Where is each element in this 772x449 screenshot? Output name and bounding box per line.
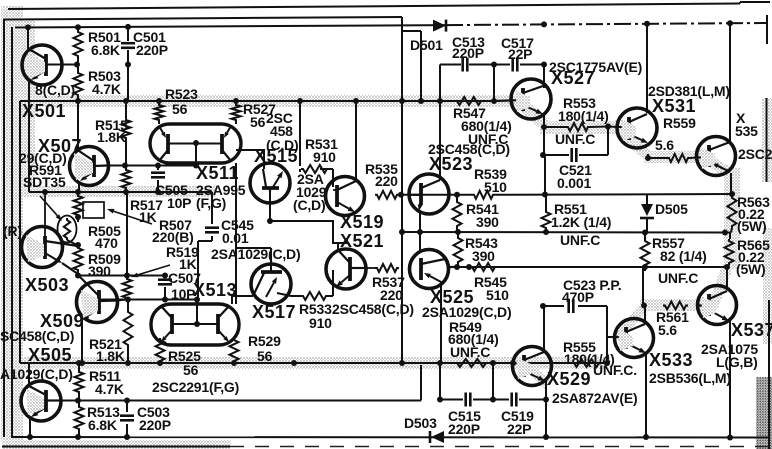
wire x421 feedback drop <box>420 365 422 401</box>
resistor R541 390 <box>453 200 462 228</box>
svg-text:R523: R523 <box>165 86 198 102</box>
svg-text:(C,D): (C,D) <box>293 197 325 213</box>
svg-text:L(G,B): L(G,B) <box>716 354 758 370</box>
svg-text:UNF.C: UNF.C <box>560 232 600 248</box>
node C501 mid <box>125 62 131 68</box>
node C505 top <box>155 163 161 169</box>
transistor X533 (2SB536) <box>615 319 654 358</box>
resistor R527 56 <box>232 103 241 122</box>
svg-text:UNF.C: UNF.C <box>555 131 595 147</box>
wire x236 long link <box>235 163 237 304</box>
node R505 bottom <box>75 214 81 220</box>
transistor X519 <box>326 177 365 216</box>
wire bottom rail <box>11 436 770 439</box>
wire X529 emitter drop <box>545 381 547 400</box>
wire y267 (R545 net) <box>448 266 727 268</box>
svg-text:X513: X513 <box>193 280 237 300</box>
capacitor C545 0.01 <box>205 228 219 233</box>
wire C507 stubs <box>164 276 166 300</box>
wire UNF.C box <box>544 127 608 156</box>
svg-text:1.8K: 1.8K <box>96 348 125 364</box>
svg-text:5.6: 5.6 <box>658 322 677 338</box>
svg-text:X525: X525 <box>430 287 474 307</box>
resistor R539 510 <box>472 191 495 199</box>
node C503 top <box>124 398 130 404</box>
wire ladder x127 R517 stubs <box>125 166 127 193</box>
node C515 left <box>437 397 443 403</box>
svg-text:910: 910 <box>313 149 336 165</box>
svg-text:22P: 22P <box>507 421 531 437</box>
dual transistor X511 (2SA995) <box>150 124 241 163</box>
wire R533 link <box>291 169 333 296</box>
svg-text:(5W): (5W) <box>736 261 766 277</box>
wire left bus outer <box>3 19 5 438</box>
node R565 bottom <box>724 264 730 270</box>
node x607 rail <box>604 360 610 366</box>
node R543 top <box>455 229 461 235</box>
wire X533 base stub <box>607 336 615 338</box>
node C507 bottom <box>162 297 168 303</box>
wire bias branch x421 <box>402 31 421 101</box>
wire X517 top stub <box>236 248 271 272</box>
svg-text:10P: 10P <box>171 286 195 302</box>
svg-text:390: 390 <box>476 214 499 230</box>
resistor R551 1.2K <box>542 210 551 230</box>
svg-text:470P: 470P <box>562 289 594 305</box>
resistor R525 56 <box>156 338 165 363</box>
svg-text:56: 56 <box>183 362 199 378</box>
node x493 rail <box>490 360 496 366</box>
wire X515 collector link <box>236 150 264 169</box>
node X513 centre <box>194 321 200 327</box>
node R545 left <box>466 264 472 270</box>
wire R509 node y275 <box>79 275 165 277</box>
wire X535 emitter drop <box>730 173 732 194</box>
wire X513 right top stub <box>232 296 253 304</box>
wire ladder x127 R515 stub <box>125 101 127 166</box>
wire bias y232 <box>402 231 731 234</box>
node R553 right <box>605 124 611 130</box>
resistor R547 680(1/4) <box>455 97 483 105</box>
transistor X525 <box>410 250 458 289</box>
node X501 collector / rail C <box>25 24 31 30</box>
wire ladder x78 top <box>77 27 79 101</box>
wire x440 cap leg <box>439 363 441 400</box>
leader arrow R519 label to resistor <box>131 265 170 277</box>
node R557 bottom <box>642 264 648 270</box>
wire left band inner edge <box>19 101 21 363</box>
node R541 top <box>454 192 460 198</box>
svg-text:X519: X519 <box>340 212 384 232</box>
wire R523 bottom stub <box>158 122 160 124</box>
wire right border lower <box>768 300 770 449</box>
resistor R531 910 <box>301 165 329 173</box>
wire ladder x128 R521 stubs <box>127 300 129 364</box>
node C521 box corner <box>540 152 546 158</box>
resistor R559 5.6 <box>667 154 690 162</box>
diode D505 <box>640 204 654 218</box>
transistor X521 <box>326 249 375 289</box>
node X511 post top <box>193 163 199 169</box>
wire X511 centre post <box>195 143 197 166</box>
wire R565 stubs <box>727 233 730 268</box>
resistor R555 180(1/4) <box>572 359 601 367</box>
resistor R561 5.6 <box>663 302 688 310</box>
svg-text:0.01: 0.01 <box>222 230 249 246</box>
wire X505 collector <box>28 363 30 386</box>
node X509 emitter rail <box>79 360 85 366</box>
transistor X535 (2SC2---) <box>697 137 736 176</box>
resistor R513 6.8K <box>75 405 84 431</box>
capacitor C505 10P <box>151 173 165 178</box>
svg-text:X521: X521 <box>340 231 384 251</box>
svg-text:4.7K: 4.7K <box>95 381 124 397</box>
wire R531 ladder <box>300 101 329 172</box>
wire X519 collector <box>355 101 357 181</box>
node C519 right <box>543 397 549 403</box>
node X531 emitter <box>645 155 651 161</box>
wire lower gray rail y363 <box>20 362 608 364</box>
diode D503 <box>430 431 444 443</box>
wire X523 collector <box>439 101 441 180</box>
wire R505 stub <box>77 192 79 194</box>
svg-text:220: 220 <box>375 173 398 189</box>
wire R507 output y192 <box>29 191 212 193</box>
resistor R529 56 <box>230 338 239 363</box>
resistor R503 4.7K <box>74 71 83 97</box>
resistor R563 0.22 (5W) <box>728 196 737 228</box>
node X535 emitter node <box>729 191 735 197</box>
node R517 bottom <box>123 189 129 195</box>
scan smudge in X529 <box>516 357 531 379</box>
wire R511 stubs <box>78 363 80 400</box>
wire C501 stubs <box>127 27 129 101</box>
capacitor C515 220P <box>466 393 471 407</box>
wire R527 bottom stub <box>235 122 237 124</box>
wire D505 stubs <box>646 194 648 233</box>
svg-text:220: 220 <box>380 287 403 303</box>
leader arrow R507 label to preset box <box>107 209 152 224</box>
wire X527 emitter node <box>543 113 545 127</box>
wire top rail A <box>8 2 770 9</box>
svg-text:220(B): 220(B) <box>152 229 194 245</box>
wire R563 stubs <box>731 194 732 233</box>
svg-text:(5W): (5W) <box>737 218 767 234</box>
svg-text:D505: D505 <box>655 201 688 217</box>
scan smudge in X527 <box>515 90 530 112</box>
resistor R591 SDT35 (thermal, oval) <box>58 216 80 247</box>
wire X505 emitter drop <box>29 417 31 437</box>
diode D501 <box>433 20 446 32</box>
transistor X509 <box>77 277 129 323</box>
node R553 left <box>541 124 547 130</box>
wire top rail C (D501 net) <box>15 23 766 28</box>
node R535-X523 <box>398 192 404 198</box>
node X509 base <box>125 297 131 303</box>
resistor R509 390 <box>74 246 83 272</box>
svg-text:X501: X501 <box>22 101 66 121</box>
wire X523 emitter drop <box>419 212 421 232</box>
node C521 net y195 <box>542 192 548 198</box>
node X503 base tap <box>42 189 48 195</box>
scan smudge in X509 <box>81 290 98 318</box>
wire X509 base y299 <box>100 299 197 301</box>
node R527 top <box>233 98 239 104</box>
wire X501 collector <box>27 27 29 49</box>
resistor R557 82(1/4) <box>641 239 650 267</box>
wire X507 emitter <box>78 181 80 192</box>
svg-text:X523: X523 <box>429 154 473 174</box>
resistor R523 56 <box>155 103 164 122</box>
svg-text:535: 535 <box>735 123 758 139</box>
wire left bus inner <box>11 27 13 437</box>
wire X507 base y165 <box>107 165 196 167</box>
svg-text:X537: X537 <box>731 320 772 340</box>
svg-text:UNF.C: UNF.C <box>658 270 698 286</box>
node X505 emitter bottom <box>27 434 33 440</box>
node X505 base <box>75 398 81 404</box>
svg-text:1.8K: 1.8K <box>97 129 126 145</box>
node R513 bottom b <box>75 434 81 440</box>
capacitor C507 10P <box>158 280 172 285</box>
wire X533 collector <box>644 306 646 324</box>
wire R509 stubs <box>77 217 79 276</box>
node R523 top <box>156 98 162 104</box>
node C503 bottom <box>124 434 130 440</box>
wire x402 long vertical <box>401 17 403 363</box>
wire X527 C513 net y64 <box>440 64 544 66</box>
svg-text:2SC2291(F,G): 2SC2291(F,G) <box>152 379 239 395</box>
resistor R545 510 <box>470 263 497 271</box>
svg-text:2SC2: 2SC2 <box>738 146 772 162</box>
node R561 left <box>641 303 647 309</box>
transistor X505 <box>21 381 61 421</box>
node X511 centre <box>193 140 199 146</box>
wire C503 stubs <box>126 400 128 437</box>
node x402-y232 <box>399 229 405 235</box>
transistor X517 (2SA1029) <box>251 264 291 304</box>
svg-text:UNF.C: UNF.C <box>450 344 490 360</box>
node R503 bottom <box>75 98 81 104</box>
transistor X523 <box>409 174 449 214</box>
node R501 top <box>75 24 81 30</box>
wire x643 link <box>642 267 644 306</box>
scan smudge in X533 <box>618 329 633 351</box>
wire top rail B <box>5 17 402 20</box>
node R511 top rail <box>76 360 82 366</box>
node R505 top <box>75 189 81 195</box>
node R529 bottom <box>231 360 237 366</box>
svg-text:510: 510 <box>486 287 509 303</box>
wire mid y195 (X523 base / R539) <box>401 193 735 196</box>
wire X515 base route <box>270 192 348 250</box>
node R521 bottom <box>125 360 131 366</box>
wire X535 collector <box>729 23 731 141</box>
svg-text:X517: X517 <box>252 302 296 322</box>
svg-text:10P: 10P <box>167 195 191 211</box>
svg-text:2SB536(L,M): 2SB536(L,M) <box>649 370 731 386</box>
svg-text:(R): (R) <box>3 223 22 239</box>
node R557 top <box>642 230 648 236</box>
svg-text:SDT35: SDT35 <box>23 174 66 190</box>
wire bottom edge line <box>2 446 770 448</box>
wire R513 stubs <box>78 400 80 437</box>
wire right border upper <box>766 15 768 44</box>
scan smudge in X537 <box>701 296 716 318</box>
svg-text:6.8K: 6.8K <box>91 42 120 58</box>
resistor R533 910 <box>301 292 328 300</box>
wire X533 emitter drop <box>645 353 647 437</box>
svg-text:22P: 22P <box>508 46 532 62</box>
svg-text:X515: X515 <box>254 146 298 166</box>
node R543 bottom <box>454 264 460 270</box>
svg-text:220P: 220P <box>448 421 480 437</box>
svg-text:UNF.C: UNF.C <box>468 131 508 147</box>
svg-text:R529: R529 <box>248 333 281 349</box>
svg-text:1K: 1K <box>139 209 157 225</box>
svg-text:X527: X527 <box>551 68 595 88</box>
capacitor C523 470P P.P. <box>569 299 574 313</box>
wire R557 stubs <box>644 233 646 272</box>
wire C523 net y306 <box>543 305 607 307</box>
svg-text:220P: 220P <box>139 417 171 433</box>
wire C505 stubs <box>157 163 159 192</box>
node x402 rail <box>399 98 405 104</box>
svg-text:A1029(C,D): A1029(C,D) <box>0 366 73 382</box>
wire x493 legs <box>493 65 494 400</box>
node X535 collector top <box>727 20 733 26</box>
transistor X527 (2SC1775AV) <box>494 79 551 119</box>
wire X501 emitter drop <box>28 80 30 192</box>
wire R553 in <box>544 126 618 129</box>
wire x607 link <box>606 306 608 363</box>
node X529 base rail <box>510 360 516 366</box>
resistor R501 6.8K <box>74 30 83 58</box>
svg-text:220P: 220P <box>452 45 484 61</box>
svg-text:2SC458(C,D): 2SC458(C,D) <box>332 301 414 317</box>
svg-text:X505: X505 <box>28 345 72 365</box>
node X513 post join <box>194 297 200 303</box>
wire X529 collector <box>543 306 545 351</box>
wire upper gray rail y101 <box>20 100 495 102</box>
node X531 collector top <box>644 21 650 27</box>
node R519 top <box>124 273 130 279</box>
wire R551 stubs <box>545 195 547 233</box>
node x440 rail <box>437 98 443 104</box>
node X515 emitter? wire <box>267 218 273 224</box>
svg-text:1.2K (1/4): 1.2K (1/4) <box>551 214 611 230</box>
svg-text:2SA1029(C,D): 2SA1029(C,D) <box>211 246 300 262</box>
svg-text:8(C,D): 8(C,D) <box>35 82 75 98</box>
resistor R565 0.22 (5W) <box>725 239 734 265</box>
resistor R517 1K <box>122 168 131 190</box>
svg-text:X531: X531 <box>652 96 696 116</box>
node R525 bottom <box>157 360 163 366</box>
node R551 bottom <box>543 229 549 235</box>
transistor X531 (2SD381) <box>617 108 657 148</box>
svg-text:6.8K: 6.8K <box>88 417 117 433</box>
capacitor C503 220P <box>120 416 134 421</box>
node X529 collector top <box>540 303 546 309</box>
wire C515/C519 net y400 <box>440 399 546 401</box>
wire R543 stubs <box>457 232 459 267</box>
resistor R505 470 (with preset box) <box>74 194 105 218</box>
svg-text:470: 470 <box>95 235 118 251</box>
node x402 rail bottom <box>399 360 405 366</box>
node X533 emitter bottom <box>643 434 649 440</box>
node X503 collector <box>75 242 81 248</box>
node x127 rail <box>123 98 129 104</box>
capacitor C521 0.001 <box>572 148 577 162</box>
resistor R521 1.8K <box>124 310 133 347</box>
wire X525 emitter drop <box>440 284 442 363</box>
svg-text:(F,G): (F,G) <box>196 195 226 211</box>
svg-text:390: 390 <box>88 263 111 279</box>
node X525 emitter rail <box>437 360 443 366</box>
svg-text:SC458(C,D): SC458(C,D) <box>0 328 74 344</box>
wire x440 leg <box>439 65 441 102</box>
scan smudge in X501 <box>28 52 45 79</box>
resistor R553 180(1/4) <box>566 123 590 131</box>
svg-text:4.7K: 4.7K <box>92 81 121 97</box>
resistor R535 220 <box>375 191 399 199</box>
wire X505 base y400 <box>61 400 421 402</box>
node R509 bottom <box>75 273 81 279</box>
wire X537 collector <box>726 267 728 290</box>
node C519 bottom <box>543 434 549 440</box>
svg-text:82 (1/4): 82 (1/4) <box>660 248 707 264</box>
scan smudge in X505 <box>26 389 44 415</box>
svg-text:390: 390 <box>472 248 495 264</box>
dual transistor X513 (2SC2291) <box>151 304 239 345</box>
node X501 base <box>74 62 80 68</box>
wire X537 emitter drop <box>729 321 731 438</box>
wire right border mid <box>766 98 768 182</box>
node C515-C519 <box>490 397 496 403</box>
wire X509 emitter drop <box>81 320 83 363</box>
resistor R515 1.8K <box>122 118 131 140</box>
svg-text:2SA872AV(E): 2SA872AV(E) <box>552 390 637 406</box>
wire C545 link <box>198 192 212 300</box>
svg-text:910: 910 <box>309 315 332 331</box>
svg-text:0.001: 0.001 <box>557 175 591 191</box>
resistor R537 220 <box>375 264 399 272</box>
wire C521 drop to y195 <box>544 155 546 195</box>
scan smudge in X531 <box>621 119 636 141</box>
transistor X501 (2SA798) <box>22 45 62 85</box>
svg-text:56: 56 <box>257 348 273 364</box>
svg-text:180(1/4): 180(1/4) <box>558 108 609 124</box>
wire R541 stubs <box>456 195 458 232</box>
transistor X537 (2SA1075) <box>697 286 737 325</box>
node C513-C517 <box>491 62 497 68</box>
svg-text:56: 56 <box>172 101 188 117</box>
svg-text:R559: R559 <box>663 115 696 131</box>
svg-text:UNF.C.: UNF.C. <box>593 362 637 378</box>
wire C519 right leg <box>545 400 547 438</box>
wire ladder x127 down <box>126 192 128 276</box>
transistor X507 <box>70 147 109 186</box>
node X519 collector rail <box>353 98 359 104</box>
node R531 top <box>297 98 303 104</box>
svg-text:D503: D503 <box>404 415 437 431</box>
svg-text:X511: X511 <box>196 163 239 183</box>
node X523 emitter-y232 <box>417 229 423 235</box>
leader arrow R591 label to oval <box>40 196 62 221</box>
node X537 emitter bottom <box>727 435 733 441</box>
svg-text:5.6: 5.6 <box>655 137 674 153</box>
node x294 rail <box>291 360 297 366</box>
